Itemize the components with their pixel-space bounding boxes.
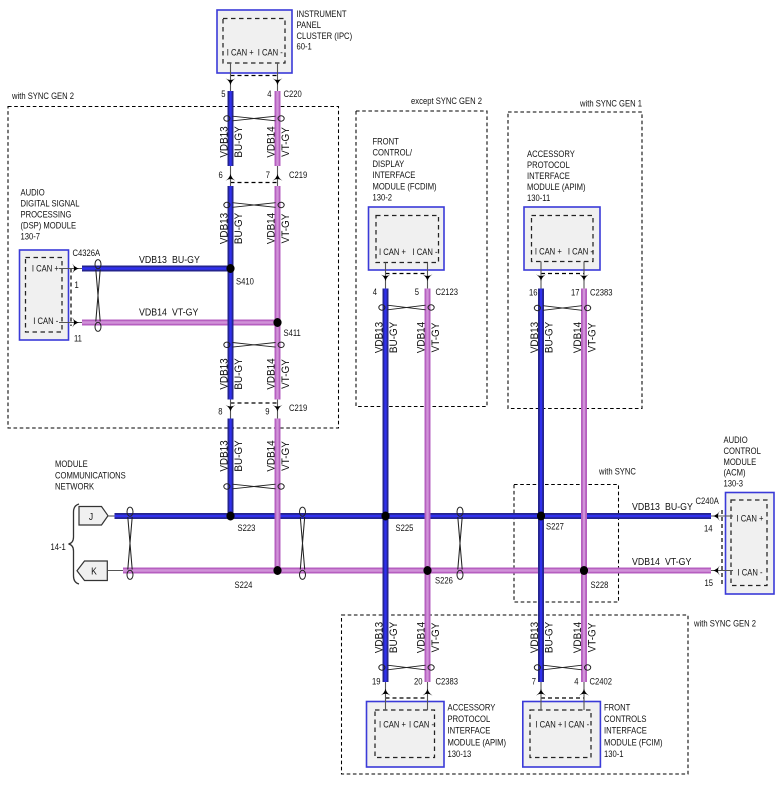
svg-text:PROTOCOL: PROTOCOL — [527, 159, 570, 170]
svg-text:C4326A: C4326A — [73, 247, 101, 258]
svg-text:ACCESSORY: ACCESSORY — [448, 702, 496, 713]
svg-text:S224: S224 — [235, 579, 253, 590]
twisted pair bus x302 — [300, 517, 304, 570]
svg-text:AUDIO: AUDIO — [724, 434, 749, 445]
junction S226 — [423, 566, 431, 575]
svg-text:16: 16 — [529, 287, 538, 298]
svg-text:I CAN -: I CAN - — [568, 246, 593, 257]
svg-text:DISPLAY: DISPLAY — [373, 158, 405, 169]
svg-text:60-1: 60-1 — [297, 41, 313, 52]
connector dashed line C219 pins 8-9 — [231, 402, 278, 404]
wire VDB13 IPC segment 1 — [228, 91, 234, 166]
svg-text:14: 14 — [704, 523, 713, 534]
svg-text:PROCESSING: PROCESSING — [21, 209, 72, 220]
twisted pair above J bus — [233, 484, 276, 489]
connector dashed line C2383 bottom — [386, 697, 428, 699]
svg-text:COMMUNICATIONS: COMMUNICATIONS — [55, 470, 126, 481]
svg-text:CONTROL: CONTROL — [724, 445, 762, 456]
svg-text:S226: S226 — [435, 575, 453, 586]
twisted pair DSP — [96, 270, 100, 322]
svg-text:MODULE: MODULE — [55, 459, 88, 470]
svg-text:BU-GY: BU-GY — [665, 500, 694, 512]
svg-text:PANEL: PANEL — [297, 19, 322, 30]
svg-text:J: J — [89, 511, 93, 522]
svg-text:CLUSTER (IPC): CLUSTER (IPC) — [297, 30, 353, 41]
svg-text:with SYNC GEN 2: with SYNC GEN 2 — [11, 90, 74, 101]
svg-text:VDB13: VDB13 — [139, 253, 167, 265]
junction S228 — [580, 566, 588, 575]
wire VDB14 IPC segment 1 — [275, 91, 281, 166]
svg-text:VDB14: VDB14 — [266, 213, 278, 245]
stem wire J connector — [108, 515, 116, 517]
svg-text:5: 5 — [415, 286, 420, 297]
wire VDB14 segment 2 — [275, 186, 281, 400]
svg-text:VDB13: VDB13 — [374, 322, 386, 354]
region box: with SYNC GEN 2 (left) — [8, 107, 339, 429]
region box: except SYNC GEN 2 — [356, 111, 487, 407]
svg-text:MODULE: MODULE — [724, 456, 757, 467]
svg-text:with SYNC: with SYNC — [598, 466, 636, 477]
svg-text:MODULE (FCIM): MODULE (FCIM) — [604, 737, 663, 748]
svg-text:AUDIO: AUDIO — [21, 187, 46, 198]
module FCDIM box — [369, 207, 445, 270]
svg-text:VT-GY: VT-GY — [587, 323, 599, 353]
svg-text:CONTROL/: CONTROL/ — [373, 147, 413, 158]
svg-text:4: 4 — [574, 676, 579, 687]
arrows C240A — [713, 511, 720, 521]
svg-text:(DSP) MODULE: (DSP) MODULE — [21, 220, 77, 231]
svg-text:130-7: 130-7 — [21, 231, 41, 242]
svg-text:C220: C220 — [284, 88, 303, 99]
svg-text:BU-GY: BU-GY — [233, 358, 245, 389]
svg-text:I CAN -: I CAN - — [33, 315, 58, 326]
svg-text:4: 4 — [267, 88, 272, 99]
svg-text:VT-GY: VT-GY — [172, 306, 199, 318]
module IPC box — [217, 10, 292, 73]
svg-text:VT-GY: VT-GY — [280, 127, 292, 157]
connector dashed line C4326A — [70, 269, 72, 327]
svg-text:CONTROLS: CONTROLS — [604, 713, 647, 724]
svg-text:130-3: 130-3 — [724, 478, 744, 489]
svg-text:C2402: C2402 — [590, 676, 613, 687]
svg-text:7: 7 — [532, 676, 537, 687]
arrows C4326A — [72, 264, 79, 274]
connector dashed line C220 — [231, 75, 278, 77]
stem wires FCIM — [540, 682, 542, 710]
svg-text:I CAN +: I CAN + — [535, 719, 562, 730]
stem wires DSP — [59, 268, 83, 270]
junction S411 — [273, 318, 281, 327]
arrows C220 — [226, 78, 236, 85]
svg-text:15: 15 — [705, 577, 714, 588]
svg-text:VDB14: VDB14 — [572, 322, 584, 354]
svg-text:9: 9 — [265, 406, 270, 417]
twisted pair below APIM — [543, 306, 582, 311]
svg-text:FRONT: FRONT — [373, 136, 399, 147]
svg-text:INTERFACE: INTERFACE — [448, 725, 491, 736]
svg-text:6: 6 — [218, 169, 223, 180]
svg-text:I CAN +: I CAN + — [379, 719, 406, 730]
svg-text:VDB13: VDB13 — [219, 213, 231, 245]
svg-text:BU-GY: BU-GY — [544, 622, 556, 653]
junction S227 — [537, 512, 545, 521]
svg-text:14-1: 14-1 — [51, 541, 67, 552]
junction S224 — [273, 566, 281, 575]
svg-text:K: K — [91, 566, 97, 577]
svg-text:BU-GY: BU-GY — [233, 440, 245, 471]
svg-text:I CAN +: I CAN + — [32, 263, 59, 274]
connector dashed line C219 pins 6-7 — [231, 182, 278, 184]
svg-text:8: 8 — [218, 406, 223, 417]
svg-text:VDB13: VDB13 — [374, 622, 386, 654]
junction S223 — [226, 512, 234, 521]
svg-text:19: 19 — [372, 676, 381, 687]
svg-text:17: 17 — [571, 287, 580, 298]
wire VDB14 FCDIM to APIM bottom — [425, 289, 431, 683]
stem wires ACM — [710, 515, 733, 517]
connector J symbol — [79, 507, 108, 526]
connector dashed line C240A — [721, 510, 723, 584]
svg-text:with SYNC GEN 2: with SYNC GEN 2 — [693, 618, 756, 629]
svg-text:S227: S227 — [546, 521, 564, 532]
svg-text:S223: S223 — [238, 522, 256, 533]
svg-text:I CAN +: I CAN + — [227, 47, 254, 58]
svg-text:INTERFACE: INTERFACE — [527, 170, 570, 181]
brace 14-1 — [69, 504, 80, 584]
arrows C2123 — [381, 274, 391, 281]
svg-text:MODULE (APIM): MODULE (APIM) — [527, 181, 586, 192]
svg-text:BU-GY: BU-GY — [388, 322, 400, 353]
svg-text:I CAN -: I CAN - — [564, 719, 589, 730]
arrows C2402 — [536, 689, 546, 696]
stem wires APIM bottom — [385, 682, 387, 710]
junction S410 — [226, 264, 234, 273]
svg-text:VDB14: VDB14 — [266, 126, 278, 158]
svg-text:INTERFACE: INTERFACE — [373, 169, 416, 180]
svg-text:VDB14: VDB14 — [139, 306, 167, 318]
svg-text:130-11: 130-11 — [527, 192, 551, 203]
svg-text:VDB14: VDB14 — [416, 322, 428, 354]
svg-text:I CAN -: I CAN - — [737, 567, 762, 578]
stem wires C219 upper gap — [230, 165, 232, 187]
twisted pair below C220 — [233, 116, 276, 121]
svg-text:C219: C219 — [289, 169, 308, 180]
svg-text:VT-GY: VT-GY — [280, 214, 292, 244]
region box: with SYNC GEN 1 — [508, 112, 642, 409]
svg-text:VDB13: VDB13 — [529, 622, 541, 654]
svg-text:VDB13: VDB13 — [529, 322, 541, 354]
svg-text:BU-GY: BU-GY — [388, 622, 400, 653]
wire VDB13 FCDIM to APIM bottom — [383, 289, 389, 683]
stem wires FCDIM — [385, 263, 387, 290]
arrows C219 8-9 — [226, 405, 236, 412]
wire VDB14 APIM to FCIM — [581, 289, 587, 683]
svg-text:FRONT: FRONT — [604, 702, 630, 713]
wire DSP VDB13 horizontal — [82, 266, 231, 272]
junction S225 — [381, 512, 389, 521]
wire K bus VDB14 VT-GY — [123, 568, 711, 574]
module DSP box — [20, 250, 69, 340]
stem wires C219 lower gap — [230, 399, 232, 419]
svg-text:BU-GY: BU-GY — [172, 253, 201, 265]
svg-text:VDB14: VDB14 — [572, 622, 584, 654]
twisted pair below FCDIM — [388, 305, 426, 310]
svg-text:VDB13: VDB13 — [219, 126, 231, 158]
svg-text:DIGITAL SIGNAL: DIGITAL SIGNAL — [21, 198, 80, 209]
svg-text:130-13: 130-13 — [448, 748, 472, 759]
svg-text:VDB13: VDB13 — [219, 440, 231, 472]
stem wires IPC — [230, 63, 232, 92]
wire VDB13 APIM to FCIM — [538, 289, 544, 683]
svg-text:C240A: C240A — [696, 495, 720, 506]
svg-text:S225: S225 — [396, 522, 414, 533]
stem wires APIM — [540, 262, 542, 290]
svg-text:130-2: 130-2 — [373, 192, 393, 203]
svg-text:VT-GY: VT-GY — [280, 441, 292, 471]
svg-text:I CAN -: I CAN - — [412, 246, 437, 257]
svg-text:BU-GY: BU-GY — [544, 322, 556, 353]
svg-text:I CAN +: I CAN + — [535, 246, 562, 257]
arrows C2383 top — [536, 274, 546, 281]
twisted pair above FCIM — [543, 665, 582, 670]
connector dashed line C2383 top — [541, 273, 584, 275]
connector K symbol — [77, 561, 107, 581]
svg-text:MODULE (FCDIM): MODULE (FCDIM) — [373, 181, 437, 192]
module APIM bottom box — [367, 702, 445, 768]
svg-text:11: 11 — [74, 333, 82, 344]
svg-text:I CAN +: I CAN + — [379, 246, 406, 257]
wire J bus VDB13 BU-GY — [115, 513, 712, 519]
svg-text:VT-GY: VT-GY — [430, 623, 442, 653]
svg-text:C2123: C2123 — [436, 286, 459, 297]
svg-text:20: 20 — [414, 676, 423, 687]
svg-text:VT-GY: VT-GY — [430, 323, 442, 353]
svg-text:with SYNC GEN 1: with SYNC GEN 1 — [579, 98, 642, 109]
module FCIM box — [523, 702, 601, 768]
svg-text:I CAN -: I CAN - — [258, 47, 283, 58]
connector dashed line C2123 — [386, 273, 428, 275]
arrows C2383 bottom — [381, 689, 391, 696]
svg-text:PROTOCOL: PROTOCOL — [448, 713, 491, 724]
svg-text:NETWORK: NETWORK — [55, 481, 94, 492]
wire VDB13 segment 3 — [228, 419, 234, 517]
connector dashed line C2402 — [541, 697, 584, 699]
svg-text:MODULE (APIM): MODULE (APIM) — [448, 737, 507, 748]
svg-text:(ACM): (ACM) — [724, 467, 746, 478]
twisted pair below C219 6-7 — [233, 203, 276, 208]
svg-text:ACCESSORY: ACCESSORY — [527, 148, 575, 159]
arrows C219 6-7 — [226, 174, 236, 181]
svg-text:INTERFACE: INTERFACE — [604, 725, 647, 736]
svg-text:VDB14: VDB14 — [266, 358, 278, 390]
svg-text:S410: S410 — [236, 276, 254, 287]
svg-text:C219: C219 — [289, 402, 308, 413]
svg-text:C2383: C2383 — [590, 287, 613, 298]
svg-text:VT-GY: VT-GY — [280, 359, 292, 389]
twisted pair bus x130 — [128, 517, 132, 570]
region box: with SYNC — [514, 485, 619, 603]
svg-text:S228: S228 — [591, 579, 609, 590]
svg-text:BU-GY: BU-GY — [233, 213, 245, 244]
svg-text:VDB14: VDB14 — [266, 440, 278, 472]
svg-text:C2383: C2383 — [436, 676, 459, 687]
svg-text:VT-GY: VT-GY — [665, 555, 692, 567]
wire VDB13 segment 2 — [228, 186, 234, 400]
svg-text:except SYNC GEN 2: except SYNC GEN 2 — [411, 95, 482, 106]
twisted pair above APIM bottom — [388, 665, 426, 670]
svg-text:BU-GY: BU-GY — [233, 126, 245, 157]
svg-text:VDB13: VDB13 — [632, 500, 660, 512]
svg-text:7: 7 — [266, 169, 271, 180]
svg-text:1: 1 — [75, 279, 80, 290]
svg-text:VT-GY: VT-GY — [587, 623, 599, 653]
stem wire K connector — [107, 570, 124, 572]
svg-text:S411: S411 — [284, 327, 302, 338]
svg-text:4: 4 — [373, 286, 378, 297]
twisted pair bus x460 — [458, 517, 462, 570]
svg-text:INSTRUMENT: INSTRUMENT — [297, 8, 347, 19]
wire DSP VDB14 horizontal — [82, 320, 278, 326]
svg-text:I CAN -: I CAN - — [409, 719, 434, 730]
svg-text:VDB14: VDB14 — [416, 622, 428, 654]
svg-text:I CAN +: I CAN + — [737, 513, 764, 524]
wire VDB14 segment 3 — [275, 419, 281, 571]
svg-text:VDB13: VDB13 — [219, 358, 231, 390]
module APIM box — [524, 207, 600, 270]
svg-text:VDB14: VDB14 — [632, 555, 660, 567]
svg-text:5: 5 — [221, 88, 226, 99]
twisted pair below S411 — [233, 343, 276, 348]
svg-text:130-1: 130-1 — [604, 748, 624, 759]
module ACM box — [726, 493, 775, 595]
region box: with SYNC GEN 2 (bottom) — [342, 615, 689, 774]
